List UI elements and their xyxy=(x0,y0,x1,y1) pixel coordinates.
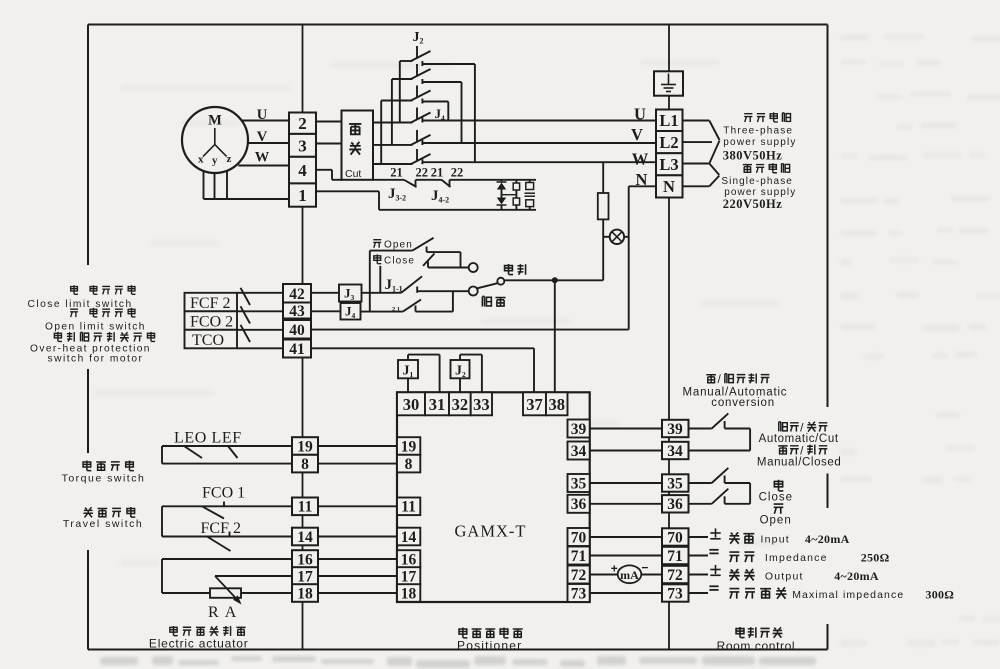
svg-text:GAMX-T: GAMX-T xyxy=(455,522,527,541)
svg-text:L2: L2 xyxy=(659,133,678,152)
svg-text:14: 14 xyxy=(401,529,417,546)
svg-text:Three-phase: Three-phase xyxy=(723,125,793,136)
svg-text:Open limit switch: Open limit switch xyxy=(45,321,146,332)
svg-text:Close: Close xyxy=(759,492,793,504)
svg-text:71: 71 xyxy=(571,548,587,565)
svg-text:+: + xyxy=(611,562,618,576)
svg-text:14: 14 xyxy=(297,529,313,546)
svg-text:TCO: TCO xyxy=(192,332,224,349)
svg-text:N: N xyxy=(663,177,675,196)
svg-text:220V50Hz: 220V50Hz xyxy=(723,197,783,211)
svg-text:M: M xyxy=(208,113,222,129)
svg-text:L3: L3 xyxy=(659,155,678,174)
svg-text:U: U xyxy=(257,107,268,123)
svg-text:switch for motor: switch for motor xyxy=(48,354,144,365)
svg-text:32: 32 xyxy=(452,395,469,414)
svg-text:Input: Input xyxy=(761,534,790,546)
svg-text:22: 22 xyxy=(451,166,464,180)
svg-text:4~20mA: 4~20mA xyxy=(834,569,879,583)
svg-text:21: 21 xyxy=(431,166,444,180)
svg-text:19: 19 xyxy=(401,438,417,455)
svg-text:Room control: Room control xyxy=(717,639,796,653)
svg-text:70: 70 xyxy=(667,529,683,546)
svg-text:Output: Output xyxy=(765,571,804,583)
svg-text:34: 34 xyxy=(667,443,683,460)
svg-text:2 1: 2 1 xyxy=(392,306,400,313)
svg-text:power supply: power supply xyxy=(723,137,796,148)
svg-text:Electric actuator: Electric actuator xyxy=(149,637,249,651)
svg-text:4: 4 xyxy=(298,161,307,180)
svg-text:Maximal impedance: Maximal impedance xyxy=(792,589,904,601)
svg-text:Close: Close xyxy=(384,256,415,267)
svg-text:V: V xyxy=(631,125,643,144)
svg-text:16: 16 xyxy=(401,551,417,568)
svg-text:250Ω: 250Ω xyxy=(861,550,890,564)
svg-text:4~20mA: 4~20mA xyxy=(805,532,850,546)
svg-text:35: 35 xyxy=(667,475,683,492)
svg-text:71: 71 xyxy=(667,548,683,565)
svg-text:72: 72 xyxy=(667,567,683,584)
svg-text:Single-phase: Single-phase xyxy=(721,176,793,187)
svg-text:1: 1 xyxy=(298,186,307,205)
svg-text:Automatic/Cut: Automatic/Cut xyxy=(759,433,839,445)
svg-text:35: 35 xyxy=(571,475,587,492)
svg-text:36: 36 xyxy=(667,496,683,513)
svg-text:3: 3 xyxy=(298,136,307,155)
svg-text:Open: Open xyxy=(384,240,413,251)
svg-text:17: 17 xyxy=(401,568,417,585)
svg-text:conversion: conversion xyxy=(711,397,775,409)
svg-text:38: 38 xyxy=(549,395,566,414)
svg-text:21: 21 xyxy=(390,166,403,180)
svg-text:Torque switch: Torque switch xyxy=(62,472,146,484)
svg-text:19: 19 xyxy=(297,438,313,455)
svg-text:39: 39 xyxy=(571,421,587,438)
svg-text:L1: L1 xyxy=(659,111,678,130)
svg-text:73: 73 xyxy=(571,585,587,602)
svg-text:11: 11 xyxy=(401,499,416,516)
svg-text:17: 17 xyxy=(297,568,313,585)
svg-text:30: 30 xyxy=(403,395,420,414)
svg-text:40: 40 xyxy=(289,322,305,339)
svg-text:R A: R A xyxy=(208,604,238,621)
svg-text:11: 11 xyxy=(298,499,313,516)
svg-text:70: 70 xyxy=(571,529,587,546)
svg-text:y: y xyxy=(212,155,218,167)
svg-text:Open: Open xyxy=(760,514,792,526)
svg-text:x: x xyxy=(198,154,204,166)
svg-text:41: 41 xyxy=(289,341,305,358)
svg-text:36: 36 xyxy=(571,496,587,513)
svg-text:22: 22 xyxy=(416,166,429,180)
svg-text:mA: mA xyxy=(620,568,639,582)
svg-text:37: 37 xyxy=(526,395,543,414)
svg-text:39: 39 xyxy=(667,421,683,438)
svg-text:18: 18 xyxy=(297,585,313,602)
svg-text:V: V xyxy=(257,129,268,145)
svg-text:31: 31 xyxy=(429,395,446,414)
svg-text:33: 33 xyxy=(473,395,490,414)
svg-text:Positioner: Positioner xyxy=(457,638,522,652)
svg-text:42: 42 xyxy=(289,286,305,303)
svg-text:73: 73 xyxy=(667,585,683,602)
svg-text:FCO 1: FCO 1 xyxy=(202,485,245,502)
svg-text:43: 43 xyxy=(289,303,305,320)
svg-text:300Ω: 300Ω xyxy=(925,587,954,601)
svg-text:72: 72 xyxy=(571,567,587,584)
svg-text:FCO 2: FCO 2 xyxy=(190,314,233,331)
svg-text:Impedance: Impedance xyxy=(765,552,828,564)
svg-text:8: 8 xyxy=(301,456,309,473)
svg-text:Travel switch: Travel switch xyxy=(63,518,143,530)
svg-text:34: 34 xyxy=(571,443,587,460)
svg-text:16: 16 xyxy=(297,551,313,568)
svg-text:380V50Hz: 380V50Hz xyxy=(723,149,783,163)
svg-text:−: − xyxy=(641,561,648,575)
svg-text:Manual/Closed: Manual/Closed xyxy=(757,457,842,469)
svg-text:FCF 2: FCF 2 xyxy=(201,520,241,537)
svg-text:W: W xyxy=(255,150,270,166)
svg-text:z: z xyxy=(227,153,232,165)
svg-text:Close limit switch: Close limit switch xyxy=(28,299,133,310)
svg-text:18: 18 xyxy=(401,585,417,602)
svg-text:LEO LEF: LEO LEF xyxy=(174,430,242,447)
svg-text:Cut: Cut xyxy=(345,168,361,180)
svg-text:FCF 2: FCF 2 xyxy=(190,295,230,312)
svg-text:8: 8 xyxy=(405,456,413,473)
svg-text:2: 2 xyxy=(298,114,307,133)
svg-text:U: U xyxy=(634,105,646,124)
svg-text:W: W xyxy=(632,150,649,169)
